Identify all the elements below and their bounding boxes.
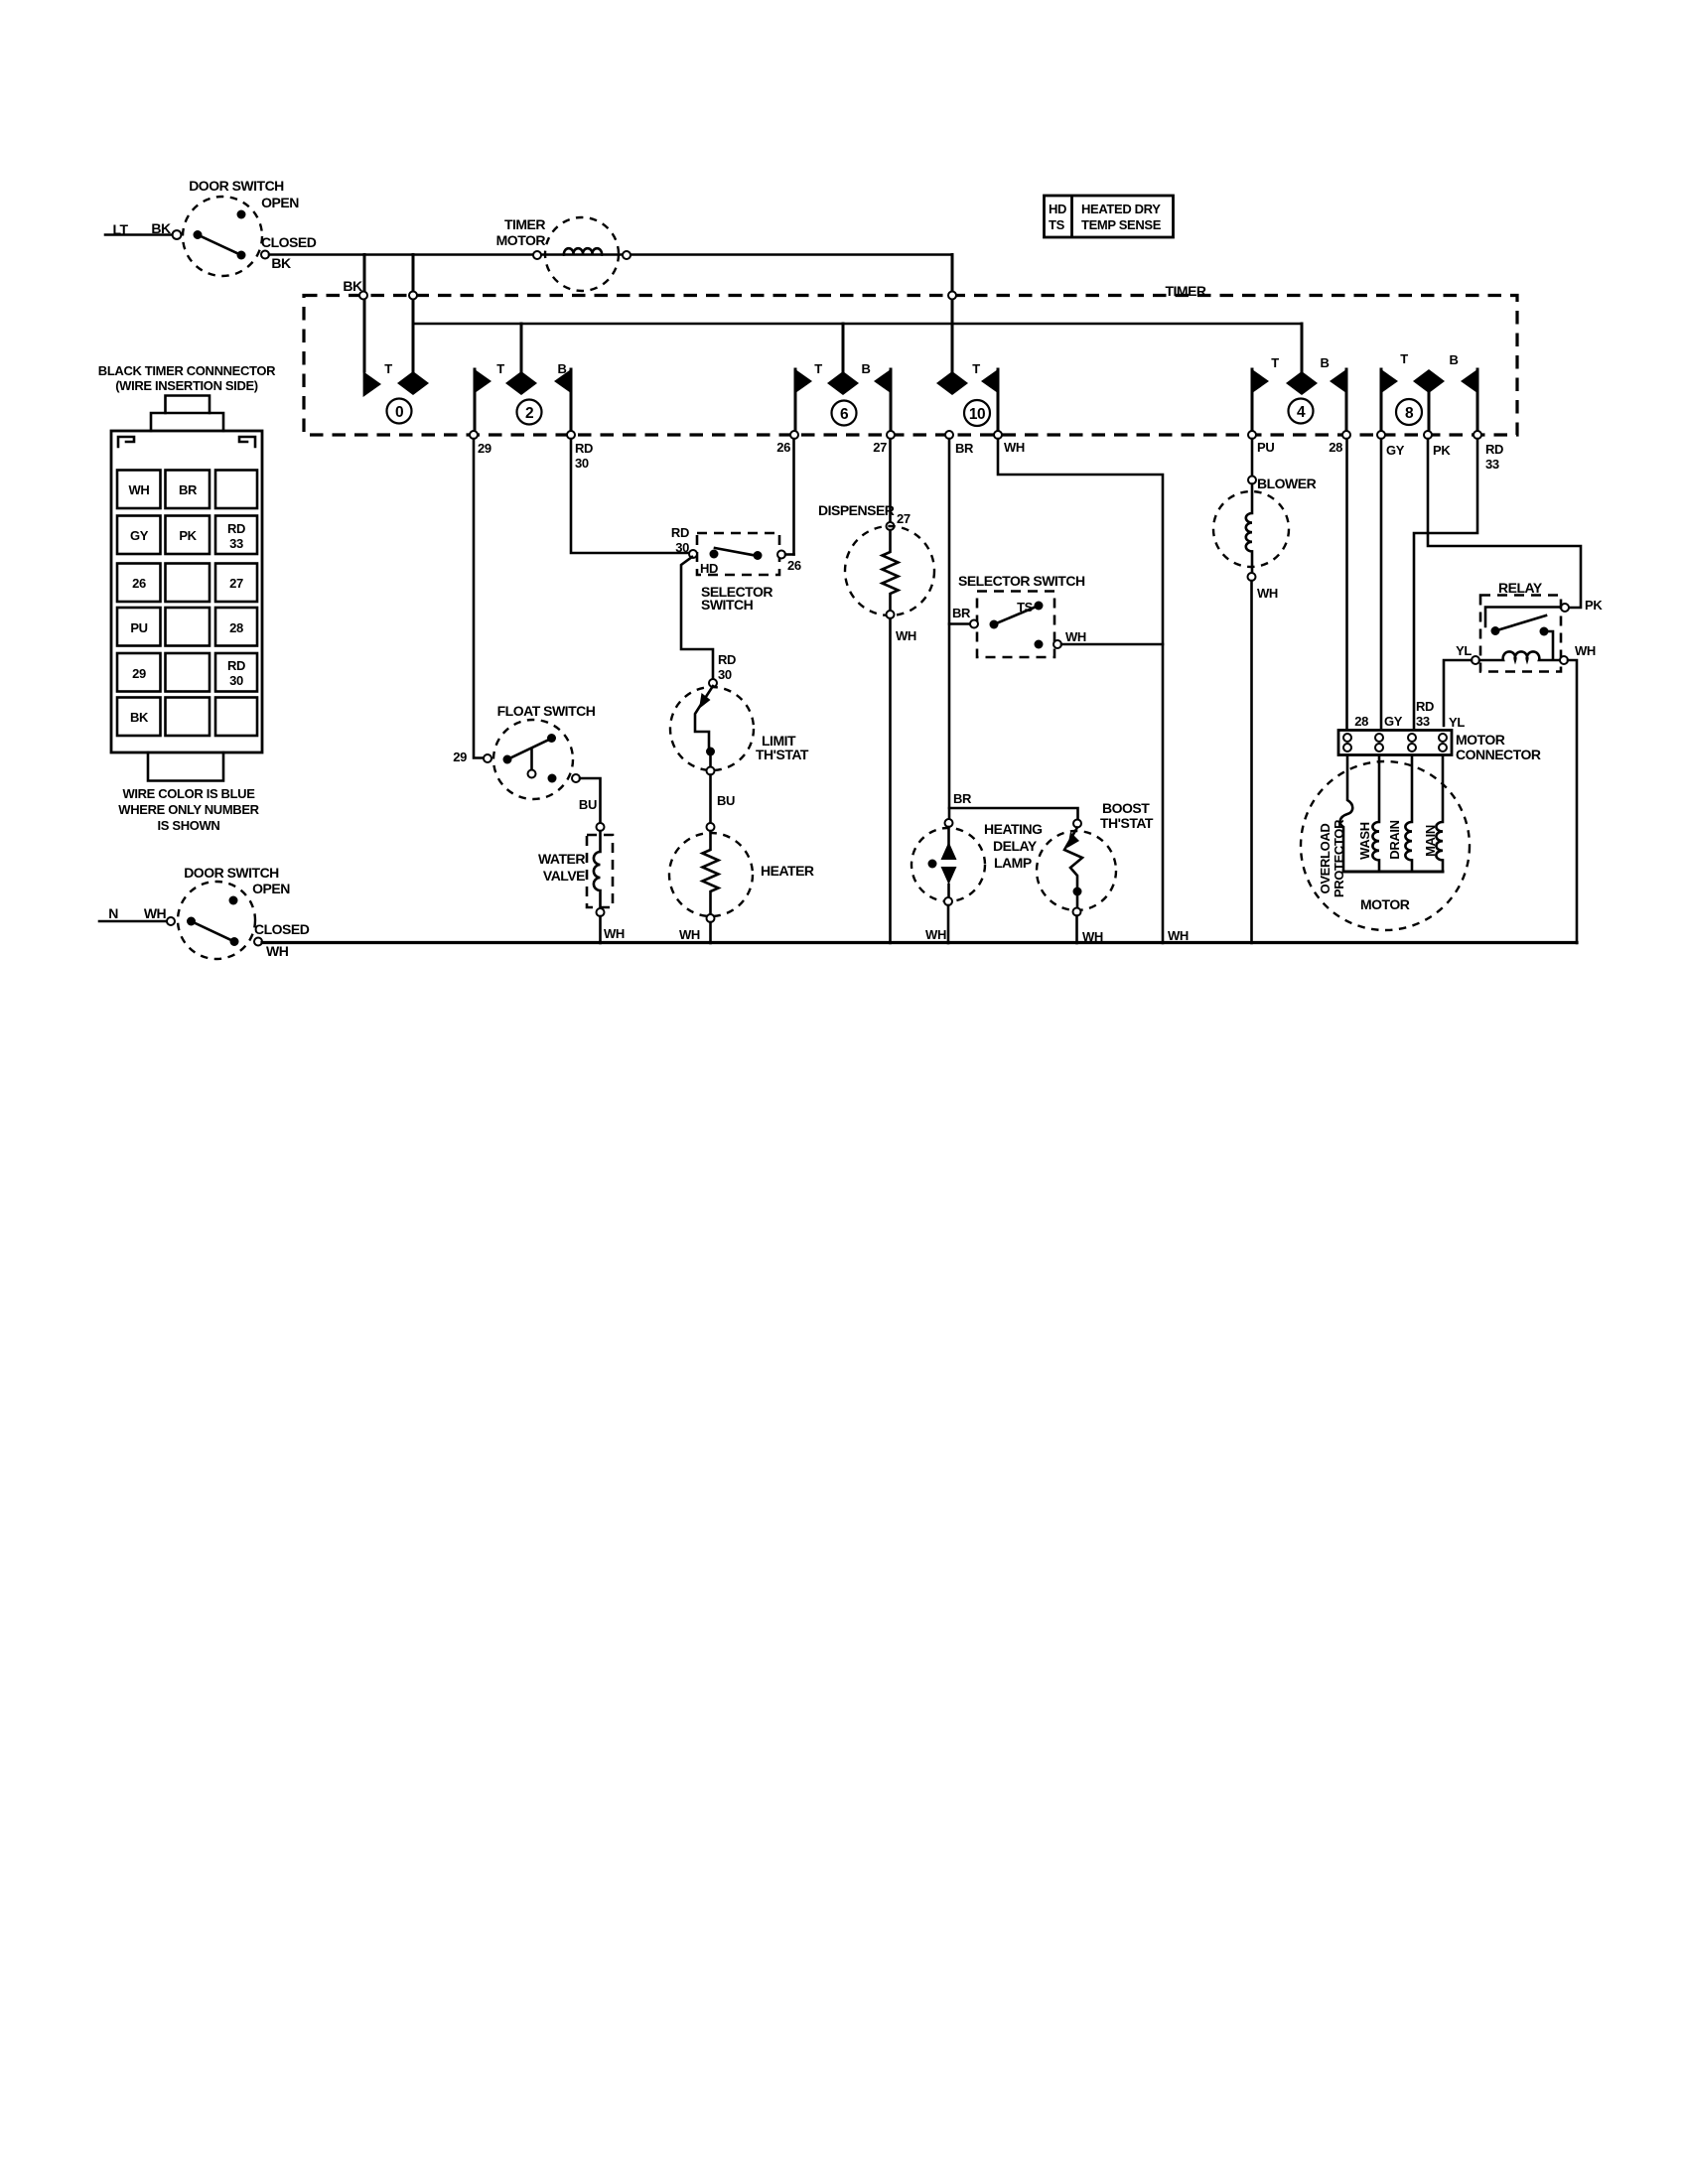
drain winding <box>1405 755 1412 873</box>
svg-text:WH: WH <box>144 905 167 921</box>
timer motor right terminal <box>623 251 631 259</box>
connector cell 26 <box>117 564 161 603</box>
svg-text:OPEN: OPEN <box>252 881 290 896</box>
cam switch 0 T flag <box>363 371 381 397</box>
connector cell blank r6c2 <box>166 698 210 737</box>
svg-text:WH: WH <box>1004 440 1025 455</box>
timer motor left terminal <box>533 251 541 259</box>
cam switch 4 B flag <box>1330 368 1347 435</box>
wire water valve to bus <box>599 916 602 943</box>
wash winding <box>1372 755 1379 873</box>
node at timer top cam 10 <box>948 292 956 300</box>
svg-text:WH: WH <box>679 927 700 942</box>
black timer connector title <box>98 363 276 393</box>
connector cell BK <box>117 698 161 737</box>
node heater bottom <box>707 914 715 922</box>
TS selector blade <box>994 606 1039 624</box>
wire 27 column <box>889 439 892 522</box>
timer motor enclosure <box>545 217 619 291</box>
svg-text:GY: GY <box>1384 714 1403 729</box>
connector cell blank r3c2 <box>166 564 210 603</box>
svg-text:10: 10 <box>969 406 985 423</box>
selector switch TS dashed box <box>977 592 1054 658</box>
node heating delay lamp top <box>945 819 953 827</box>
svg-text:BK: BK <box>130 710 149 725</box>
door switch DS2 enclosure <box>178 882 255 959</box>
svg-text:30: 30 <box>575 456 589 471</box>
wire cam 0 diamond stem <box>412 255 415 373</box>
svg-text:PROTECTOR: PROTECTOR <box>1332 819 1346 897</box>
relay blade <box>1495 615 1546 631</box>
svg-text:33: 33 <box>1485 457 1499 472</box>
node TS selector input <box>970 620 978 628</box>
heating delay lamp lower electrode <box>941 867 957 885</box>
black timer connector bottom tab <box>148 752 223 781</box>
svg-text:DELAY: DELAY <box>993 838 1038 854</box>
connector cell BR <box>166 471 210 509</box>
wire 29 column to float switch <box>474 439 484 758</box>
wire lamp to bus <box>947 905 950 943</box>
svg-text:T: T <box>384 361 392 376</box>
svg-text:SELECTOR SWITCH: SELECTOR SWITCH <box>958 573 1085 589</box>
svg-text:HD: HD <box>700 561 718 576</box>
wire RD30 branch down to limit thermostat <box>681 557 713 679</box>
motor connector label <box>1456 732 1541 762</box>
wire RD33 label at motor connector <box>1416 699 1434 729</box>
door switch DS2 pivot dot <box>187 917 196 926</box>
svg-text:27: 27 <box>897 511 911 526</box>
heater enclosure <box>669 833 753 916</box>
svg-text:BK: BK <box>271 255 291 271</box>
relay pivot dot <box>1491 626 1500 635</box>
svg-text:TEMP SENSE: TEMP SENSE <box>1081 217 1162 232</box>
svg-text:DISPENSER: DISPENSER <box>818 502 895 518</box>
svg-text:PU: PU <box>130 620 147 635</box>
cam switch 2 T flag <box>474 368 491 435</box>
water valve coil <box>594 831 601 908</box>
svg-text:WH: WH <box>1168 928 1189 943</box>
svg-text:VALVE: VALVE <box>543 868 585 884</box>
door switch DS2 open contact dot <box>229 896 238 905</box>
svg-text:MOTOR: MOTOR <box>1360 896 1410 912</box>
wire BK top feed to timer <box>269 253 952 256</box>
svg-text:WASH: WASH <box>1357 822 1372 860</box>
connector cell RD33 <box>215 516 257 555</box>
connector cell blank r4c2 <box>166 608 210 646</box>
node limit thermostat top <box>709 679 717 687</box>
svg-text:BLACK TIMER CONNNECTOR: BLACK TIMER CONNNECTOR <box>98 363 276 378</box>
svg-text:2: 2 <box>525 405 533 422</box>
svg-text:BU: BU <box>579 797 597 812</box>
node float switch input <box>484 754 491 762</box>
boost thermostat element <box>1064 828 1082 888</box>
TS selector lower contact dot <box>1035 640 1044 649</box>
svg-text:BR: BR <box>952 606 971 620</box>
svg-text:T: T <box>1271 355 1279 370</box>
svg-text:HEATING: HEATING <box>984 821 1043 837</box>
svg-text:30: 30 <box>718 667 732 682</box>
svg-text:B: B <box>1320 355 1329 370</box>
dispenser enclosure <box>845 526 934 615</box>
node relay WH terminal <box>1560 656 1568 664</box>
svg-text:RD: RD <box>1485 442 1503 457</box>
wire cam 4 diamond stem <box>1301 324 1304 372</box>
node selector HD input <box>689 550 697 558</box>
door switch DS2 closed contact dot <box>230 937 239 946</box>
wire BR branch to TS selector <box>949 622 970 625</box>
svg-text:28: 28 <box>1354 714 1368 729</box>
timer dashed enclosure <box>304 296 1517 436</box>
node RD30 on timer edge <box>567 431 575 439</box>
blower enclosure <box>1213 491 1289 567</box>
svg-text:TH'STAT: TH'STAT <box>1100 815 1154 831</box>
motor connector box <box>1338 731 1452 755</box>
node water valve top <box>597 823 605 831</box>
node relay YL terminal <box>1472 656 1479 664</box>
motor enclosure <box>1301 761 1470 930</box>
node water valve bottom <box>597 908 605 916</box>
svg-text:BR: BR <box>179 482 198 497</box>
TS selector pivot dot <box>990 620 999 629</box>
cam switch 8 number <box>1396 399 1422 425</box>
svg-text:WH: WH <box>1257 586 1278 601</box>
svg-text:8: 8 <box>1405 405 1414 422</box>
node blower top <box>1248 477 1256 484</box>
float switch enclosure <box>493 720 573 799</box>
black timer connector top tab <box>166 396 210 414</box>
wire PK feed to relay <box>1428 439 1581 608</box>
connector cell PK <box>166 516 210 555</box>
wire WH from relay to bus <box>1568 660 1577 943</box>
selector switch HD dashed box <box>697 533 779 575</box>
connector cell WH <box>117 471 161 509</box>
svg-text:WATER: WATER <box>538 851 585 867</box>
float switch output dot <box>548 774 557 783</box>
black timer connector right hook <box>239 437 255 447</box>
wire YL from relay to motor connector <box>1444 660 1472 726</box>
svg-text:T: T <box>496 361 504 376</box>
selector HD contact dot <box>754 551 763 560</box>
wire cam 6 diamond stem <box>842 324 845 372</box>
selector HD blade <box>715 548 758 556</box>
node 28 on timer edge <box>1342 431 1350 439</box>
float switch blade <box>507 739 551 759</box>
node boost thermostat top <box>1073 820 1081 828</box>
svg-text:MOTOR: MOTOR <box>1456 732 1505 748</box>
svg-text:FLOAT SWITCH: FLOAT SWITCH <box>497 703 596 719</box>
svg-text:TS: TS <box>1017 600 1034 614</box>
node boost thermostat bottom <box>1073 908 1081 916</box>
node GY on timer edge <box>1377 431 1385 439</box>
svg-text:BOOST: BOOST <box>1102 800 1150 816</box>
svg-text:27: 27 <box>229 576 243 591</box>
wire dispenser to bus <box>889 618 892 943</box>
svg-text:B: B <box>1449 352 1458 367</box>
cam switch 8 diamond <box>1413 369 1445 435</box>
wire timer inner bus <box>413 323 1302 326</box>
legend box HD/TS <box>1045 196 1174 237</box>
svg-text:N: N <box>108 905 118 921</box>
node BR on timer edge <box>945 431 953 439</box>
relay contact dot <box>1540 627 1549 636</box>
node RD33 on timer edge <box>1473 431 1481 439</box>
cam switch 0 diamond <box>397 371 429 395</box>
connector cell PU <box>117 608 161 646</box>
svg-text:DOOR SWITCH: DOOR SWITCH <box>189 178 284 194</box>
boost thstat label <box>1100 800 1154 831</box>
svg-text:RD: RD <box>227 658 245 673</box>
svg-text:26: 26 <box>787 558 801 573</box>
cam switch 2 B flag <box>554 368 572 435</box>
cam switch 4 T flag <box>1251 368 1269 435</box>
svg-text:RD: RD <box>575 441 593 456</box>
svg-text:30: 30 <box>229 673 243 688</box>
heating delay lamp label <box>984 821 1043 871</box>
door switch DS1 open contact dot <box>237 210 246 219</box>
connector cell GY <box>117 516 161 555</box>
door switch DS1 blade <box>198 235 241 256</box>
svg-text:RD: RD <box>671 525 689 540</box>
node 29 on timer edge <box>470 431 478 439</box>
node relay PK terminal <box>1561 604 1569 612</box>
node door switch DS2 output <box>254 938 262 946</box>
cam switch 2 number <box>517 400 542 425</box>
black timer connector left hook <box>118 437 134 447</box>
wire cam 2 diamond stem <box>520 324 523 372</box>
boost thermostat contact dot <box>1073 887 1082 896</box>
wire 26 column <box>792 439 795 555</box>
svg-text:BLOWER: BLOWER <box>1257 476 1317 491</box>
node selector HD output <box>777 551 785 559</box>
TS selector upper contact dot <box>1035 602 1044 611</box>
connector cell blank r5c2 <box>166 653 210 692</box>
wire blower to bus <box>1250 581 1253 943</box>
cam switch 2 diamond <box>505 371 537 395</box>
svg-text:WH: WH <box>896 628 916 643</box>
heater resistor <box>703 831 719 914</box>
motor connector pins col RD33 <box>1408 734 1416 751</box>
wire PU column to blower <box>1251 439 1254 476</box>
svg-text:GY: GY <box>1386 443 1405 458</box>
cam switch 10 number <box>964 400 990 426</box>
svg-text:30: 30 <box>675 540 689 555</box>
svg-text:BR: BR <box>953 791 972 806</box>
limit thermostat element <box>695 686 713 748</box>
svg-text:WH: WH <box>1575 643 1596 658</box>
svg-text:28: 28 <box>229 620 243 635</box>
boost thermostat enclosure <box>1037 831 1116 910</box>
svg-text:WHERE ONLY NUMBER: WHERE ONLY NUMBER <box>118 802 259 817</box>
wire LT feed <box>105 233 173 236</box>
node door switch closed output <box>261 251 269 259</box>
heating delay lamp enclosure <box>912 828 985 901</box>
svg-text:0: 0 <box>395 404 403 421</box>
selector HD pivot dot <box>710 550 719 559</box>
wire BU to heater <box>709 775 712 824</box>
relay dashed box <box>1480 596 1561 672</box>
svg-text:WH: WH <box>925 927 946 942</box>
svg-text:OPEN: OPEN <box>261 195 299 210</box>
wire lamp lower stem <box>947 885 950 897</box>
wire 28 column to motor connector <box>1345 439 1348 728</box>
svg-text:26: 26 <box>132 576 146 591</box>
svg-text:YL: YL <box>1456 643 1472 658</box>
svg-text:WH: WH <box>129 482 150 497</box>
svg-text:BU: BU <box>717 793 735 808</box>
wire RD30 column to selector switch <box>571 439 689 553</box>
motor connector pins col GY <box>1375 734 1383 751</box>
node 26 on timer edge <box>790 431 798 439</box>
svg-text:RD: RD <box>718 652 736 667</box>
wire limit thermostat lower <box>709 751 712 766</box>
svg-text:TH'STAT: TH'STAT <box>756 747 809 762</box>
wire float switch to water valve <box>580 778 601 823</box>
svg-text:B: B <box>861 361 870 376</box>
cam switch 10 diamond <box>936 371 968 395</box>
node float switch output <box>572 774 580 782</box>
door switch DS2 blade <box>192 921 235 942</box>
node door switch input <box>173 230 182 239</box>
node limit thermostat bottom <box>707 767 715 775</box>
svg-text:29: 29 <box>132 666 146 681</box>
svg-text:DOOR SWITCH: DOOR SWITCH <box>184 865 279 881</box>
svg-text:MOTOR: MOTOR <box>496 232 546 248</box>
svg-text:RD: RD <box>1416 699 1434 714</box>
svg-text:4: 4 <box>1297 404 1306 421</box>
svg-text:WH: WH <box>1065 629 1086 644</box>
svg-text:33: 33 <box>1416 714 1430 729</box>
wire BR column <box>948 439 951 819</box>
svg-text:(WIRE INSERTION SIDE): (WIRE INSERTION SIDE) <box>115 378 258 393</box>
svg-text:TIMER: TIMER <box>504 216 545 232</box>
connector note text <box>118 786 259 833</box>
connector cell blank r6c3 <box>215 698 257 737</box>
float switch hanging contact <box>528 749 536 778</box>
svg-text:PK: PK <box>1585 598 1603 613</box>
overload protector lead with squiggle <box>1340 755 1353 873</box>
limit thstat label <box>756 733 809 762</box>
dispenser resistor <box>883 530 899 611</box>
svg-text:T: T <box>814 361 822 376</box>
svg-text:WIRE COLOR IS BLUE: WIRE COLOR IS BLUE <box>122 786 255 801</box>
connector cell blank r1c3 <box>215 471 257 509</box>
node PK on timer edge <box>1424 431 1432 439</box>
cam switch 0 number <box>387 399 412 424</box>
wire RD30 label <box>575 441 593 471</box>
limit thermostat enclosure <box>670 687 754 770</box>
svg-text:PU: PU <box>1257 440 1274 455</box>
node door switch DS2 input <box>167 917 175 925</box>
node BK at timer top left <box>359 292 367 300</box>
svg-text:T: T <box>972 361 980 376</box>
cam switch 4 diamond <box>1286 371 1318 395</box>
node PU on timer edge <box>1248 431 1256 439</box>
svg-text:WH: WH <box>266 943 289 959</box>
svg-text:T: T <box>1400 351 1408 366</box>
svg-text:BR: BR <box>955 441 974 456</box>
cam switch 6 B flag <box>874 368 892 435</box>
svg-text:WH: WH <box>604 926 625 941</box>
selector switch label <box>701 584 772 613</box>
svg-text:33: 33 <box>229 536 243 551</box>
svg-text:29: 29 <box>453 750 467 764</box>
svg-text:LAMP: LAMP <box>994 855 1032 871</box>
limit thermostat arrow <box>699 693 711 709</box>
relay contact arm wire <box>1485 608 1561 627</box>
svg-text:RD: RD <box>227 521 245 536</box>
svg-text:OVERLOAD: OVERLOAD <box>1318 824 1333 894</box>
svg-text:26: 26 <box>776 440 790 455</box>
wire RD30 label above limit thermostat <box>718 652 736 682</box>
connector cell 27 <box>215 564 257 603</box>
node blower bottom <box>1248 573 1256 581</box>
black timer connector second tab <box>151 413 223 431</box>
svg-text:GY: GY <box>130 528 149 543</box>
svg-text:6: 6 <box>840 406 849 423</box>
wire RD33 jog to motor connector <box>1414 439 1477 728</box>
node heating delay lamp bottom <box>944 897 952 905</box>
wire neutral bus <box>262 941 1577 944</box>
heating delay lamp upper electrode <box>941 842 957 860</box>
wire TS output to WH net <box>1061 643 1163 646</box>
node dispenser top <box>887 522 895 530</box>
wire boost lower <box>1076 891 1079 907</box>
svg-text:HD: HD <box>1049 202 1066 216</box>
svg-text:PK: PK <box>179 528 197 543</box>
cam switch 8 B flag <box>1461 368 1478 435</box>
wire selector HD output to 26 <box>785 553 794 556</box>
cam switch 6 diamond <box>827 371 859 395</box>
svg-text:TS: TS <box>1049 217 1065 232</box>
svg-text:27: 27 <box>873 440 887 455</box>
cam switch 6 T flag <box>794 368 812 435</box>
float switch pivot dot <box>503 755 512 764</box>
wire boost to bus <box>1075 916 1078 944</box>
connector cell 29 <box>117 653 161 692</box>
svg-text:CLOSED: CLOSED <box>254 921 310 937</box>
cam switch 6 number <box>832 401 857 426</box>
wire cam 0 flag drop <box>363 255 366 372</box>
cam switch 4 number <box>1289 399 1314 424</box>
svg-text:RELAY: RELAY <box>1498 580 1543 596</box>
motor connector pins col YL <box>1439 734 1447 751</box>
cam switch 8 T flag <box>1380 368 1398 435</box>
motor internal bus <box>1343 871 1443 874</box>
svg-text:HEATER: HEATER <box>761 863 814 879</box>
wire N feed <box>99 920 167 923</box>
svg-text:29: 29 <box>478 441 491 456</box>
float switch upper contact dot <box>547 734 556 743</box>
boost thermostat arrow <box>1067 832 1079 848</box>
wire cam 10 diamond stem <box>951 255 954 373</box>
timer motor coil <box>564 248 602 254</box>
node heater top <box>707 823 715 831</box>
svg-text:BK: BK <box>343 278 362 294</box>
svg-text:YL: YL <box>1449 715 1465 730</box>
svg-text:DRAIN: DRAIN <box>1387 820 1402 859</box>
wire BR branch to boost thermostat <box>949 808 1078 819</box>
wire GY column to motor connector <box>1380 439 1383 728</box>
svg-text:SWITCH: SWITCH <box>701 597 754 613</box>
node BK at timer top second <box>409 292 417 300</box>
heating delay lamp dot <box>928 860 937 869</box>
connector cell 28 <box>215 608 257 646</box>
blower coil <box>1246 484 1252 574</box>
node WH on timer edge <box>994 431 1002 439</box>
water valve label <box>538 851 585 884</box>
wire heater to bus <box>709 922 712 943</box>
heating delay lamp stem <box>947 827 950 844</box>
